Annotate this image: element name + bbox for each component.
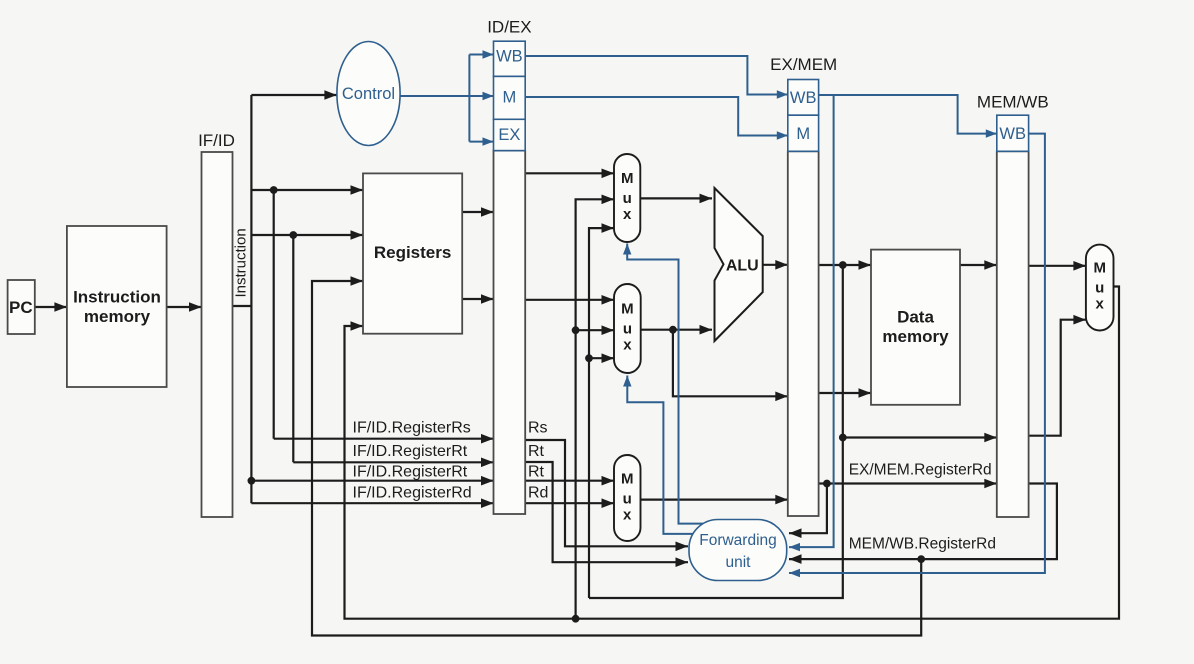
- svg-text:EX/MEM: EX/MEM: [770, 55, 837, 74]
- svg-text:Rt: Rt: [528, 463, 545, 480]
- block Forwarding unit: [689, 520, 787, 581]
- wire ID/EX read data 1 to Mux A: [525, 172, 614, 174]
- wire Data memory read data to MEM/WB: [960, 264, 997, 266]
- wire store data to EX/MEM: [673, 330, 788, 397]
- node junction MEM/WB.RegisterRd: [917, 555, 925, 563]
- node junction Rt tap: [289, 231, 297, 239]
- block Registers: [363, 173, 462, 333]
- wire EX/MEM.RegisterRd to Forwarding unit: [789, 484, 827, 534]
- wire ForwardB control to Mux B select: [627, 376, 700, 534]
- pipeline register MEM/WB: [997, 151, 1029, 517]
- wire Control to ID/EX control boxes: [400, 95, 469, 97]
- svg-text:M: M: [621, 170, 634, 187]
- wire ID/EX Rt to Mux Rd top input: [525, 480, 614, 482]
- oval Control unit: [337, 42, 400, 146]
- svg-text:WB: WB: [999, 125, 1026, 143]
- svg-text:u: u: [1095, 280, 1104, 297]
- wire Mux WB output to Registers write data: [345, 287, 1120, 619]
- wire Mux B output to ALU: [641, 329, 712, 331]
- svg-text:unit: unit: [726, 554, 752, 571]
- wire EX/MEM store data to Data memory: [819, 392, 871, 394]
- mux A (ALU operand 1): [614, 154, 640, 242]
- wire ID/EX WB to EX/MEM WB: [525, 56, 788, 95]
- svg-text:Data: Data: [897, 308, 934, 327]
- wire instruction vertical bus: [250, 95, 252, 503]
- svg-text:IF/ID.RegisterRt: IF/ID.RegisterRt: [353, 463, 468, 480]
- control box MEM/WB WB: [997, 115, 1029, 151]
- svg-text:PC: PC: [9, 298, 33, 317]
- wire instruction to Control: [251, 94, 337, 96]
- pipeline register EX/MEM: [788, 151, 819, 516]
- wire Mux A output to ALU: [640, 197, 712, 199]
- mux B (ALU operand 2): [614, 284, 641, 373]
- wire Rt drop: [292, 235, 294, 462]
- pipeline register IF/ID: [202, 152, 233, 517]
- svg-text:Control: Control: [342, 85, 395, 103]
- svg-text:memory: memory: [84, 307, 151, 326]
- svg-text:M: M: [503, 88, 517, 106]
- pipeline register ID/EX: [494, 151, 526, 514]
- wire EX/MEM ALU result to Data memory address: [819, 264, 871, 266]
- wire Registers read data 1: [462, 211, 494, 213]
- block Instruction memory: [67, 226, 167, 387]
- svg-text:x: x: [1096, 296, 1105, 313]
- wire Rs drop: [273, 190, 275, 439]
- svg-text:ID/EX: ID/EX: [487, 18, 531, 37]
- register PC: [8, 280, 35, 334]
- node junction ALU result: [839, 261, 847, 269]
- svg-text:Rs: Rs: [528, 419, 548, 436]
- svg-text:memory: memory: [882, 327, 949, 346]
- svg-text:Instruction: Instruction: [73, 288, 161, 307]
- wire instruction bus from IF/ID: [233, 305, 252, 307]
- svg-text:Registers: Registers: [374, 243, 451, 262]
- wire IF/ID.RegisterRd row: [251, 502, 493, 504]
- svg-text:IF/ID.RegisterRd: IF/ID.RegisterRd: [353, 485, 472, 502]
- wire Mux Rd output to EX/MEM: [641, 499, 788, 501]
- svg-text:MEM/WB: MEM/WB: [977, 93, 1049, 112]
- svg-text:IF/ID.RegisterRs: IF/ID.RegisterRs: [353, 419, 471, 436]
- svg-text:M: M: [621, 471, 634, 488]
- svg-text:IF/ID: IF/ID: [198, 131, 235, 150]
- svg-text:Instruction: Instruction: [233, 228, 250, 297]
- node junction EX/MEM.RegisterRd: [823, 480, 831, 488]
- svg-text:x: x: [623, 336, 632, 353]
- wire ID/EX Rs to Forwarding unit: [525, 440, 688, 546]
- wire to Registers read register 2: [251, 234, 363, 236]
- wire MEM/WB read data to Mux WB: [1029, 265, 1086, 267]
- svg-text:x: x: [623, 507, 632, 524]
- node junction WB forward to Mux B: [572, 326, 580, 334]
- wire Registers read data 2: [462, 298, 494, 300]
- svg-text:EX/MEM.RegisterRd: EX/MEM.RegisterRd: [849, 462, 992, 479]
- wire IF/ID.RegisterRt row 2: [251, 480, 493, 482]
- wire MEM/WB.RegisterRd to Registers write register: [312, 281, 921, 636]
- svg-text:u: u: [623, 320, 632, 337]
- control box EX/MEM M: [788, 115, 819, 151]
- wire ID/EX M to EX/MEM M: [525, 97, 788, 136]
- svg-text:u: u: [623, 190, 632, 207]
- wire ID/EX Rt to Forwarding unit: [525, 462, 688, 562]
- svg-text:Forwarding: Forwarding: [699, 532, 777, 549]
- ALU: [715, 188, 763, 341]
- node junction write-back value tap: [572, 615, 580, 623]
- svg-text:ALU: ALU: [726, 258, 759, 275]
- wire EX/MEM forward riser: [589, 228, 614, 598]
- wire EX/MEM.RegisterRd to MEM/WB: [819, 482, 997, 484]
- svg-text:EX: EX: [498, 126, 520, 144]
- block Data memory: [871, 250, 960, 405]
- svg-text:M: M: [621, 300, 634, 317]
- control box ID/EX M: [494, 76, 526, 119]
- node junction Mux B output: [669, 326, 677, 334]
- svg-text:Rd: Rd: [528, 485, 548, 502]
- svg-text:M: M: [1093, 260, 1106, 277]
- wire PC to Instruction memory: [35, 306, 67, 308]
- wire ID/EX read data 2 to Mux B: [525, 299, 614, 301]
- node junction EX/MEM forward to Mux B: [585, 354, 593, 362]
- wire Instruction memory to IF/ID: [167, 306, 202, 308]
- mux WB (write-back): [1086, 245, 1114, 331]
- svg-text:WB: WB: [496, 48, 523, 66]
- wire WB forward to Mux B: [576, 329, 614, 331]
- wire IF/ID.RegisterRs row: [274, 438, 494, 440]
- wire ALU result to EX/MEM: [763, 264, 788, 266]
- mux Rd (destination register): [614, 455, 641, 541]
- node junction Rs tap: [270, 186, 278, 194]
- control box ID/EX WB: [494, 41, 526, 76]
- wire ALU result forward vertical: [589, 265, 843, 598]
- wire IF/ID.RegisterRt row: [293, 461, 493, 463]
- node junction instruction Rt2 tap: [248, 477, 256, 485]
- control box EX/MEM WB: [788, 80, 819, 116]
- svg-text:u: u: [623, 491, 632, 508]
- wire ID/EX Rd to Mux Rd bottom input: [525, 502, 614, 504]
- wire ForwardA control to Mux A select: [627, 244, 706, 524]
- wire to Registers read register 1: [251, 189, 363, 191]
- wire EX/MEM WB to MEM/WB WB: [819, 95, 997, 134]
- node junction ALU result to MEM/WB: [839, 434, 847, 442]
- svg-text:IF/ID.RegisterRt: IF/ID.RegisterRt: [353, 443, 468, 460]
- wire MEM/WB.RegisterRd to Forwarding unit: [789, 484, 1057, 560]
- svg-text:M: M: [796, 125, 810, 143]
- svg-text:MEM/WB.RegisterRd: MEM/WB.RegisterRd: [849, 536, 996, 553]
- control box ID/EX EX: [494, 119, 526, 150]
- svg-text:WB: WB: [790, 89, 817, 107]
- wire EX/MEM ALU result to MEM/WB: [843, 436, 997, 438]
- wire MEM/WB WB to Forwarding unit: [789, 134, 1045, 573]
- wire WB forward riser: [576, 199, 614, 618]
- wire EX/MEM RegWrite to Forwarding unit: [789, 95, 834, 547]
- svg-text:Rt: Rt: [528, 443, 545, 460]
- wire EX/MEM forward to Mux B: [589, 357, 614, 359]
- svg-text:x: x: [623, 206, 632, 223]
- wire MEM/WB ALU result to Mux WB: [1029, 320, 1086, 436]
